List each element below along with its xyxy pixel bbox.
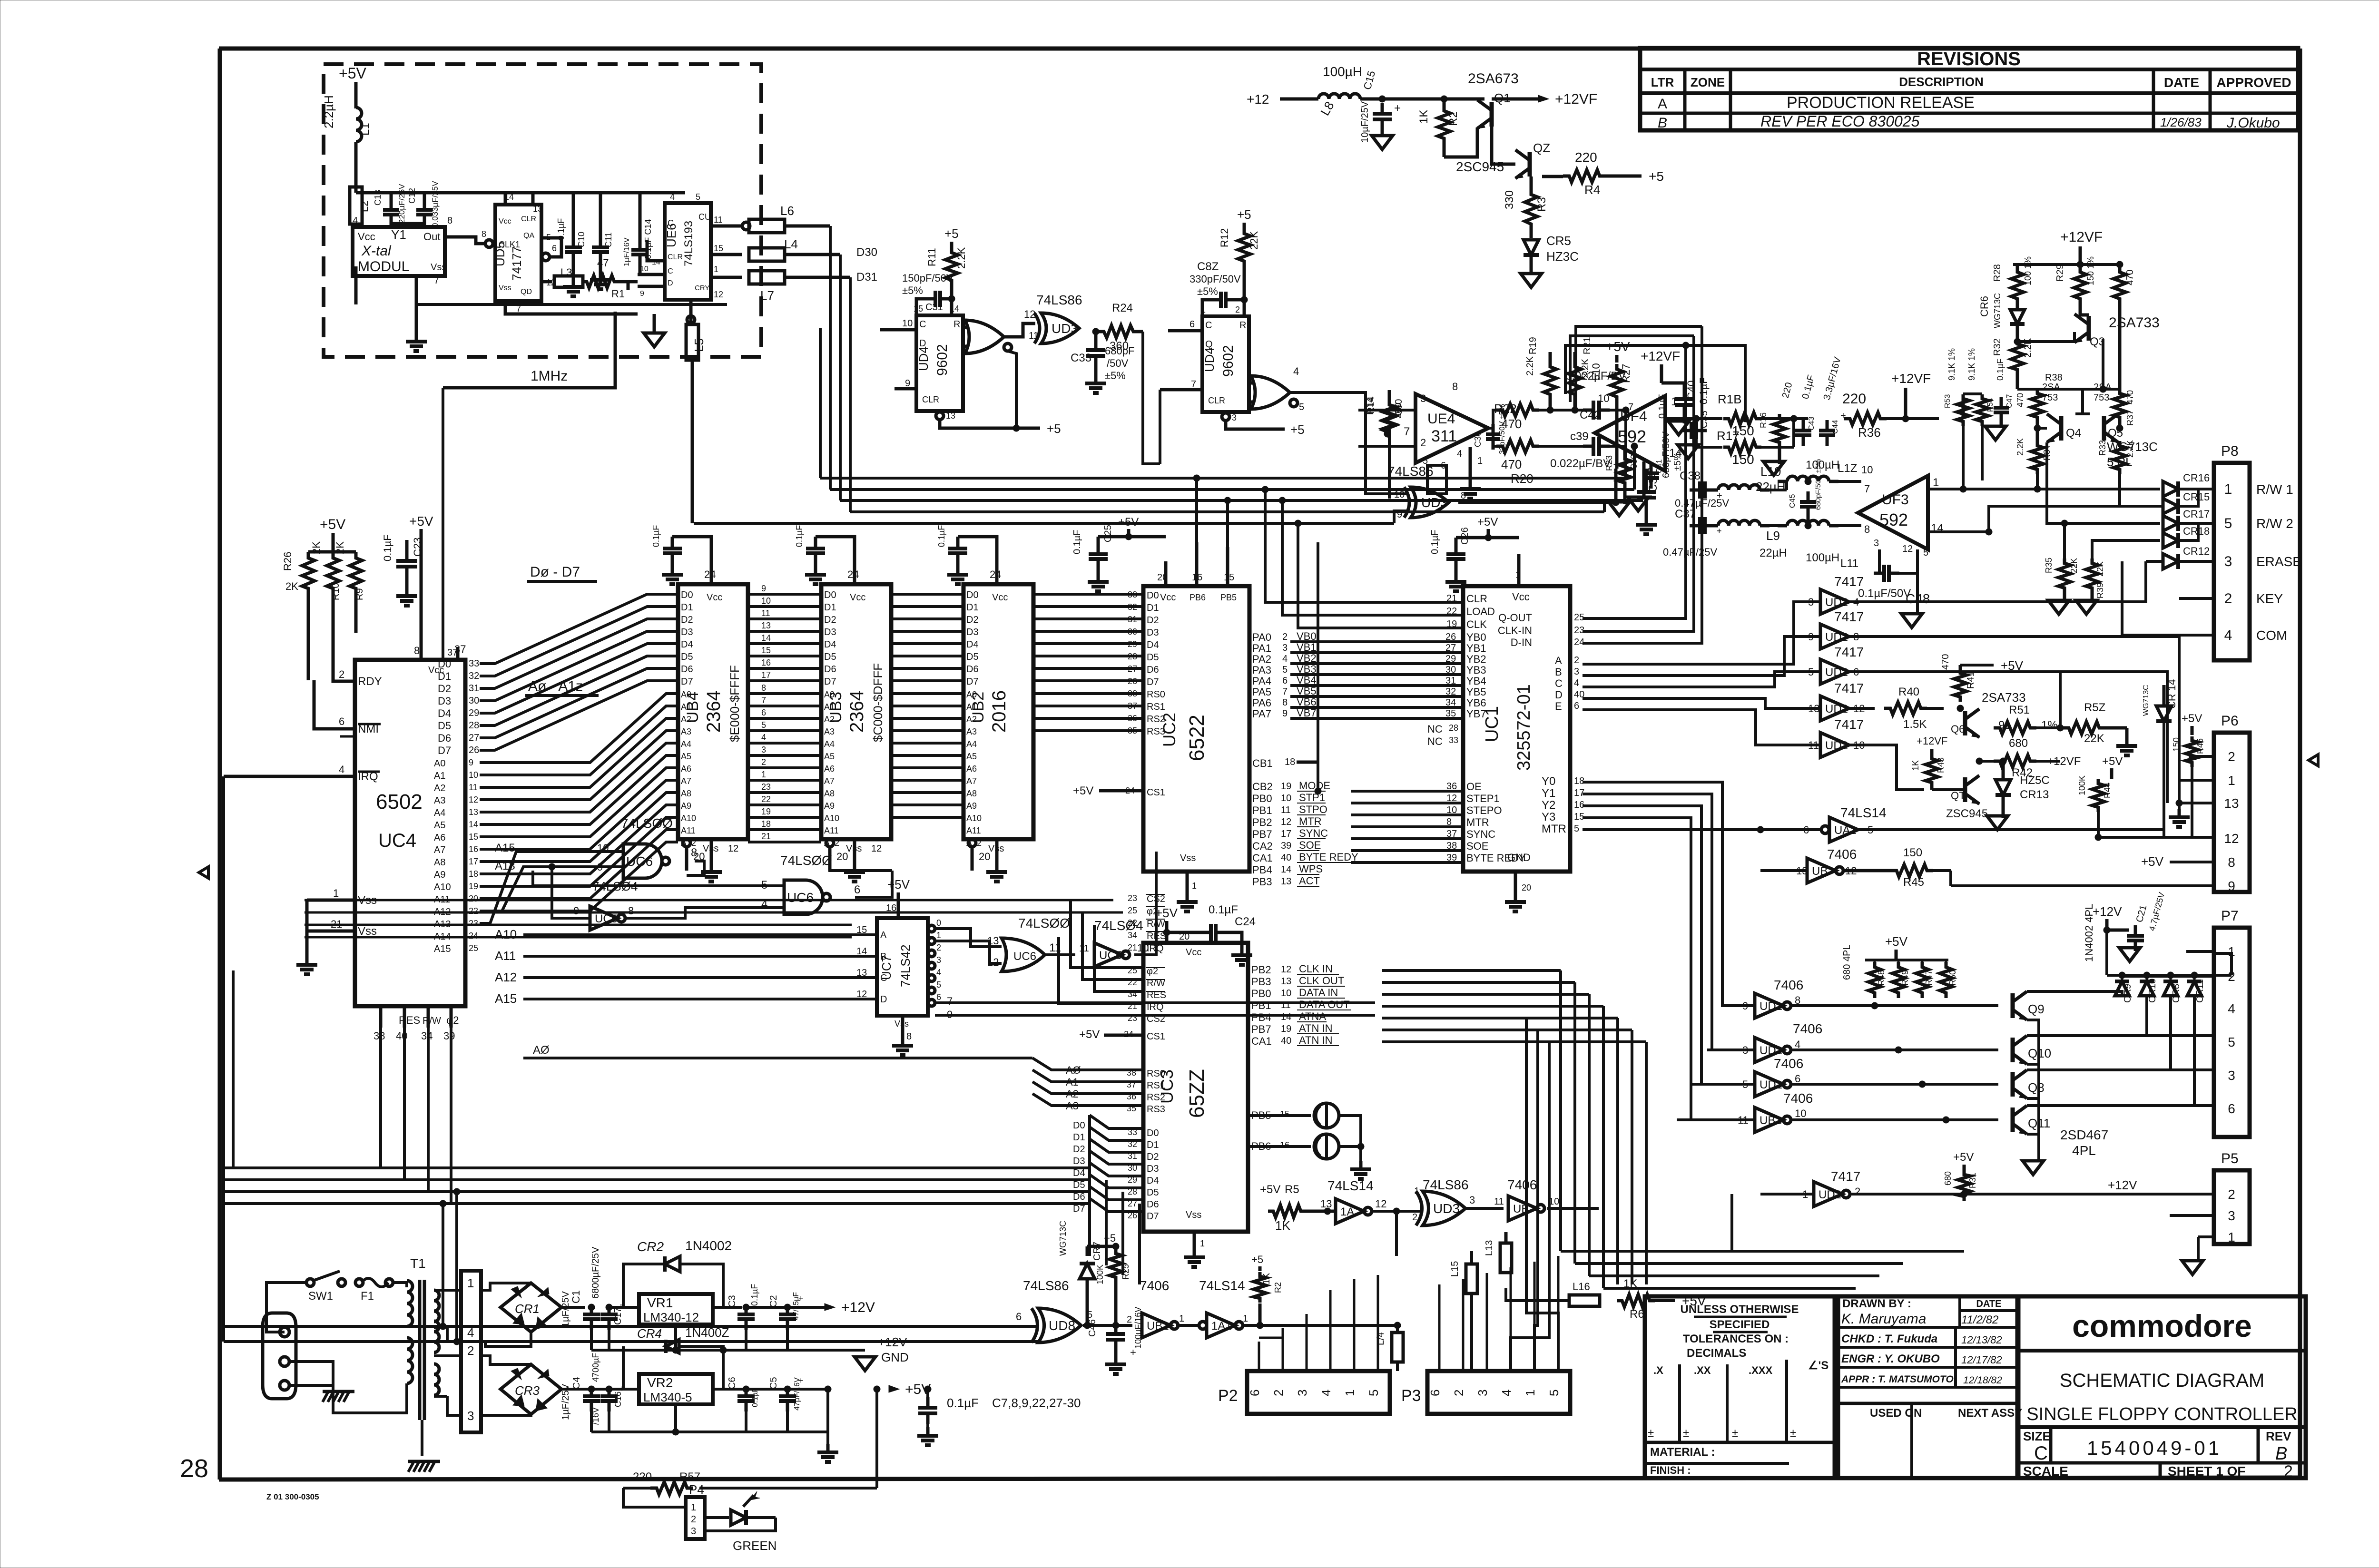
svg-text:C24: C24 (1235, 915, 1256, 928)
svg-text:RES: RES (399, 1014, 420, 1026)
svg-text:A15: A15 (495, 991, 517, 1006)
svg-text:REV PER ECO 830025: REV PER ECO 830025 (1760, 113, 1920, 130)
transistor Q9 (2011, 993, 2015, 1018)
svg-text:A4: A4 (434, 808, 445, 818)
svg-text:REV: REV (2266, 1429, 2291, 1443)
svg-text:14: 14 (1669, 447, 1682, 460)
svg-text:10: 10 (1795, 1107, 1806, 1119)
svg-text:D: D (668, 279, 673, 287)
svg-text:2.2K: 2.2K (1525, 356, 1535, 376)
svg-text:25: 25 (469, 943, 478, 953)
svg-text:PB6: PB6 (1189, 593, 1206, 602)
svg-text:A9: A9 (966, 801, 977, 811)
svg-text:D3: D3 (1073, 1156, 1085, 1166)
svg-text:4PL: 4PL (2072, 1143, 2096, 1158)
svg-text:R48: R48 (1877, 970, 1886, 986)
7417 buffer column (1808, 589, 1865, 757)
svg-text:1: 1 (1179, 1313, 1184, 1324)
svg-text:D1: D1 (1073, 1132, 1085, 1143)
svg-text:680: 680 (1943, 1171, 1953, 1186)
svg-text:±: ± (1732, 1427, 1738, 1440)
svg-text:26: 26 (469, 745, 479, 755)
wire xor2-2 input2 (1394, 511, 1407, 523)
svg-text:D31: D31 (856, 271, 877, 284)
+12V GND arrow (723, 1307, 852, 1350)
svg-text:D5: D5 (1147, 1187, 1159, 1198)
svg-text:C: C (668, 218, 674, 228)
pin names UB4 (681, 590, 696, 848)
svg-text:8: 8 (447, 216, 452, 226)
svg-text:19: 19 (469, 882, 478, 891)
svg-text:1: 1 (1243, 1313, 1248, 1324)
svg-text:3: 3 (1420, 392, 1426, 404)
capacitor C15 10uF/25V (1373, 112, 1392, 116)
svg-text:D2: D2 (1073, 1144, 1085, 1155)
svg-text:RS1: RS1 (1147, 702, 1165, 712)
svg-text:CA2: CA2 (1252, 840, 1273, 852)
svg-text:3: 3 (2228, 1208, 2235, 1223)
svg-text:D0: D0 (681, 590, 693, 600)
svg-text:NC: NC (1427, 723, 1443, 735)
svg-text:1: 1 (2228, 773, 2235, 788)
feedback loop wire top (1565, 345, 1745, 419)
svg-text:35: 35 (1128, 726, 1137, 735)
resistor R37 470 (2114, 389, 2126, 422)
svg-text:A8: A8 (434, 857, 445, 868)
svg-text:Q6: Q6 (1951, 723, 1965, 735)
svg-text:10: 10 (640, 265, 649, 273)
wire (415, 276, 418, 333)
svg-text:13: 13 (1281, 976, 1291, 987)
svg-text:74177: 74177 (510, 246, 524, 281)
svg-text:1: 1 (1200, 1239, 1205, 1248)
resistor R17 150 (1696, 419, 1722, 447)
svg-text:14: 14 (1281, 1012, 1291, 1022)
svg-text:Vss: Vss (358, 925, 377, 938)
svg-text:Vcc: Vcc (1512, 591, 1530, 603)
svg-text:74LSØØ: 74LSØØ (621, 816, 673, 831)
svg-text:0.1µF/50V: 0.1µF/50V (1858, 587, 1911, 600)
svg-text:R19: R19 (1528, 337, 1538, 354)
svg-text:R40: R40 (1898, 686, 1919, 698)
svg-text:7406: 7406 (1774, 1056, 1803, 1071)
svg-text:7406: 7406 (1827, 847, 1857, 862)
svg-text:2SA673: 2SA673 (1468, 71, 1519, 87)
svg-text:11: 11 (761, 608, 770, 618)
svg-text:4: 4 (2224, 627, 2232, 643)
svg-text:C47: C47 (2005, 394, 2014, 408)
svg-text:17: 17 (761, 670, 771, 680)
svg-text:APPR : T. MATSUMOTO: APPR : T. MATSUMOTO (1841, 1374, 1954, 1385)
svg-text:D7: D7 (438, 745, 451, 756)
svg-text:12: 12 (728, 843, 738, 854)
svg-text:±5%: ±5% (1197, 285, 1218, 297)
svg-text:A6: A6 (966, 764, 977, 774)
svg-text:4: 4 (761, 733, 766, 742)
wires into chain (1395, 1211, 1398, 1256)
svg-text:2.2K: 2.2K (2015, 438, 2025, 456)
pin numbers bus rows (761, 584, 771, 841)
svg-text:A1: A1 (434, 771, 445, 781)
svg-text:UC6: UC6 (1013, 950, 1036, 963)
svg-text:13: 13 (1320, 1198, 1332, 1210)
inductor L3 (541, 280, 552, 284)
resistor R20 470 (1496, 440, 1539, 452)
svg-text:13: 13 (761, 621, 771, 630)
svg-text:D4: D4 (966, 639, 979, 650)
revisions headers (1651, 75, 2291, 90)
svg-text:74LS86: 74LS86 (1036, 293, 1082, 307)
svg-text:CLK OUT: CLK OUT (1299, 975, 1344, 987)
svg-text:±: ± (1790, 1427, 1796, 1440)
UC3 D bus chevron (1073, 1115, 1143, 1214)
svg-text:C17: C17 (613, 1307, 623, 1325)
left vertical rails (222, 775, 225, 778)
svg-text:100µH: 100µH (1323, 64, 1362, 79)
svg-text:CA1: CA1 (1252, 852, 1273, 864)
svg-text:L9: L9 (1766, 529, 1780, 543)
svg-text:32: 32 (469, 671, 479, 681)
svg-text:13: 13 (2224, 796, 2239, 811)
svg-text:D: D (1555, 689, 1563, 701)
svg-text:4700µF: 4700µF (591, 1353, 600, 1382)
svg-text:A11: A11 (824, 826, 839, 835)
wires q4 q5 emitters (2047, 442, 2160, 523)
svg-text:1N4002 4PL: 1N4002 4PL (2083, 904, 2095, 962)
svg-text:A11: A11 (681, 826, 696, 835)
svg-text:5: 5 (696, 192, 700, 202)
svg-text:9: 9 (1282, 708, 1288, 719)
svg-text:R38: R38 (2045, 372, 2063, 383)
capacitor C39 0.022uF (1592, 437, 1595, 456)
svg-text:10: 10 (1281, 988, 1291, 999)
svg-text:6: 6 (761, 708, 766, 717)
svg-text:C25: C25 (1103, 525, 1113, 542)
svg-text:K. Maruyama: K. Maruyama (1841, 1311, 1926, 1327)
svg-text:R32: R32 (1992, 338, 2003, 356)
svg-text:C45: C45 (1789, 494, 1797, 508)
svg-text:3: 3 (1282, 643, 1288, 653)
svg-text:UB: UB (1812, 865, 1828, 878)
svg-text:4: 4 (1319, 1390, 1333, 1396)
svg-text:7417: 7417 (1834, 645, 1864, 659)
gate after UD4-2 (1251, 376, 1290, 409)
svg-text:311: 311 (1431, 427, 1457, 445)
svg-text:11: 11 (714, 215, 723, 225)
svg-text:±5%: ±5% (1105, 370, 1126, 382)
svg-text:6: 6 (1189, 319, 1195, 330)
svg-text:D7: D7 (824, 676, 836, 687)
svg-text:+5V: +5V (409, 514, 433, 529)
svg-text:USED ON: USED ON (1870, 1407, 1922, 1420)
svg-text:commodore: commodore (2072, 1308, 2252, 1343)
svg-text:FINISH :: FINISH : (1650, 1464, 1691, 1476)
svg-text:A8: A8 (824, 789, 835, 798)
capacitor C12 0.033uF/25V (416, 208, 433, 212)
svg-text:2364: 2364 (703, 690, 724, 733)
svg-text:R: R (954, 319, 960, 330)
wire A13 down (533, 871, 742, 886)
nest line B (1570, 336, 1694, 402)
svg-text:+12VF: +12VF (1641, 349, 1680, 363)
svg-text:17: 17 (469, 857, 478, 866)
control bus UC2 to UC1 (1351, 791, 1463, 862)
svg-text:22K: 22K (2069, 558, 2079, 573)
svg-text:R: R (1239, 320, 1246, 331)
svg-text:+12V: +12V (878, 1335, 907, 1349)
svg-text:D30: D30 (856, 246, 877, 259)
VR2 gnd leg (674, 1404, 677, 1432)
svg-text:470: 470 (2125, 390, 2135, 404)
UC3 left top pins (1128, 966, 1166, 1024)
P6 pin wires (2189, 755, 2214, 758)
svg-text:330pF/50V: 330pF/50V (1189, 273, 1241, 285)
svg-text:7406: 7406 (1774, 978, 1803, 992)
svg-text:22K: 22K (2095, 561, 2105, 577)
diode CR6 WG713C (2010, 310, 2025, 324)
svg-text:B: B (1658, 115, 1667, 131)
svg-text:A8: A8 (681, 789, 691, 798)
svg-text:753: 753 (2042, 392, 2058, 403)
svg-text:6: 6 (552, 244, 557, 253)
transistor Q11 (2011, 1107, 2015, 1132)
svg-text:φ2: φ2 (446, 1014, 459, 1026)
horizontal lines below UC2 (305, 900, 1123, 937)
VB labels (1294, 630, 1327, 719)
svg-text:CR7: CR7 (1092, 1242, 1102, 1261)
revisions table (1640, 48, 2298, 130)
svg-text:26: 26 (1128, 676, 1137, 686)
svg-text:0.1µF: 0.1µF (1430, 529, 1440, 554)
svg-text:YB4: YB4 (1466, 675, 1486, 687)
trunk drops to P3 (1511, 1018, 1558, 1371)
svg-text:220µF/25V: 220µF/25V (397, 184, 406, 224)
regulator VR2 LM340-5 (639, 1374, 713, 1404)
svg-text:10: 10 (1598, 392, 1609, 404)
capacitor C24 (1167, 931, 1204, 934)
svg-text:QA: QA (523, 232, 534, 240)
chassis ground plug (285, 1385, 333, 1399)
svg-text:19: 19 (1281, 781, 1291, 792)
resistor R38 470 (2031, 389, 2044, 422)
svg-text:33: 33 (1449, 735, 1458, 745)
svg-text:C42: C42 (1580, 409, 1601, 421)
svg-text:+12V: +12V (841, 1300, 875, 1315)
svg-text:A11: A11 (495, 949, 516, 963)
wire Q3 emitter down (2102, 339, 2104, 389)
svg-text:SCHEMATIC DIAGRAM: SCHEMATIC DIAGRAM (2060, 1370, 2264, 1391)
svg-text:YB6: YB6 (1466, 697, 1486, 709)
svg-text:10: 10 (469, 770, 478, 780)
svg-text:7: 7 (947, 995, 953, 1007)
mode line riser (1317, 542, 1319, 791)
ground arrow in box (644, 333, 665, 347)
svg-text:+5V: +5V (1155, 906, 1178, 920)
svg-text:+: + (1394, 102, 1401, 115)
UC1 Y pins (1542, 775, 1584, 835)
svg-text:$C000-$DFFF: $C000-$DFFF (871, 663, 885, 742)
svg-text:CLK1: CLK1 (499, 240, 520, 249)
capacitor C38 0.47uF (1698, 481, 1702, 499)
svg-text:Z 01 300-0305: Z 01 300-0305 (266, 1492, 319, 1501)
svg-text:47: 47 (597, 257, 609, 269)
wire 9602-1 CLR +5 (940, 420, 1040, 428)
svg-text:D2: D2 (824, 615, 836, 625)
svg-text:1: 1 (1523, 1390, 1537, 1396)
svg-text:+5V: +5V (2001, 658, 2024, 673)
svg-text:16: 16 (761, 658, 771, 667)
svg-text:A6: A6 (681, 764, 691, 774)
svg-text:A15: A15 (434, 944, 451, 954)
svg-text:CR8: CR8 (2171, 984, 2182, 1003)
svg-text:27: 27 (1128, 664, 1137, 674)
svg-text:9.1K 1%: 9.1K 1% (1967, 348, 1976, 381)
svg-text:GND: GND (881, 1350, 909, 1364)
svg-text:D6: D6 (1147, 1199, 1159, 1210)
svg-text:1: 1 (467, 1276, 474, 1290)
svg-text:R/W: R/W (423, 1016, 441, 1026)
svg-text:CR16: CR16 (2183, 472, 2210, 484)
svg-text:C11: C11 (604, 232, 613, 247)
UE6 left pins (647, 240, 665, 261)
misc long horizontals left (233, 970, 381, 971)
svg-text:100K: 100K (1095, 1264, 1105, 1284)
transistor Q10 (2011, 1038, 2015, 1062)
capacitor C45 (1800, 500, 1816, 504)
svg-text:2: 2 (1235, 305, 1240, 314)
capacitor C16 4700uF/16V (600, 1394, 618, 1398)
trunk UC3 to right (1382, 970, 1646, 1042)
resistor R3 330 (1525, 189, 1537, 229)
svg-text:RDY: RDY (358, 675, 382, 688)
svg-text:PA4: PA4 (1252, 675, 1271, 687)
riser joins trunk (1730, 1194, 1733, 1251)
svg-text:22µH: 22µH (1760, 547, 1787, 559)
svg-text:D4: D4 (1147, 640, 1159, 650)
svg-text:36: 36 (1128, 714, 1137, 723)
wires P2 pins up (1259, 1275, 1378, 1371)
svg-text:STP1: STP1 (1299, 792, 1325, 804)
svg-text:RS3: RS3 (1147, 1104, 1165, 1115)
svg-text:A3: A3 (681, 727, 691, 736)
wire UF4 to L9 (1696, 447, 1697, 526)
IC UD5 74177 (495, 205, 541, 301)
svg-text:UD8: UD8 (1049, 1318, 1075, 1333)
nest line C (1576, 326, 1702, 410)
capacitor C47 0.1uF (1994, 406, 2009, 410)
svg-text:13: 13 (856, 968, 867, 978)
svg-text:C46: C46 (1087, 1319, 1098, 1337)
svg-text:A0: A0 (824, 690, 835, 699)
svg-text:3: 3 (1574, 666, 1579, 677)
svg-text:37: 37 (447, 647, 458, 658)
svg-text:±5%: ±5% (902, 284, 923, 296)
svg-text:10µF/25V: 10µF/25V (1360, 101, 1370, 143)
svg-text:29: 29 (469, 708, 479, 718)
wire out of xtal to UD5 (445, 237, 485, 244)
svg-text:D2: D2 (681, 615, 693, 625)
svg-text:YB7: YB7 (1466, 708, 1486, 720)
svg-text:MATERIAL :: MATERIAL : (1650, 1446, 1715, 1459)
svg-text:0.1µF: 0.1µF (937, 525, 946, 547)
svg-text:CR9: CR9 (2123, 984, 2133, 1003)
svg-text:PB4: PB4 (1252, 864, 1272, 876)
svg-text:1%: 1% (2041, 719, 2058, 732)
svg-text:39: 39 (1281, 841, 1291, 851)
svg-text:L7: L7 (760, 288, 774, 303)
svg-text:UD3: UD3 (1052, 321, 1078, 336)
svg-text:680: 680 (2009, 737, 2028, 750)
diode CR7 WG713C (1080, 1264, 1095, 1279)
svg-text:Vcc: Vcc (1186, 947, 1201, 958)
svg-text:C44: C44 (1831, 420, 1839, 434)
svg-text:Vcc: Vcc (1160, 592, 1176, 603)
svg-text:PB1: PB1 (1252, 804, 1272, 816)
svg-text:10: 10 (902, 318, 913, 329)
capacitor C4 (583, 1394, 600, 1398)
svg-text:Q9: Q9 (2028, 1002, 2045, 1016)
gnd left (354, 266, 358, 304)
svg-text:C: C (2034, 1443, 2048, 1464)
svg-text:ATNA: ATNA (1299, 1010, 1326, 1022)
svg-text:A10: A10 (495, 927, 517, 941)
svg-text:PB2: PB2 (1252, 816, 1272, 828)
svg-text:12: 12 (1281, 817, 1291, 827)
svg-text:LM340-12: LM340-12 (643, 1310, 699, 1324)
svg-text:1: 1 (2228, 1230, 2235, 1245)
address bus 6502 to UB4 (480, 694, 678, 911)
svg-text:UC5: UC5 (1099, 949, 1122, 962)
resistors R48 R49 R47 R50 (1868, 960, 1957, 998)
svg-text:1N4002: 1N4002 (685, 1238, 732, 1253)
svg-text:5: 5 (1647, 466, 1653, 478)
wire Q1 base (1443, 144, 1446, 157)
svg-text:A0: A0 (434, 758, 445, 769)
svg-text:3: 3 (761, 745, 766, 755)
svg-text:7417: 7417 (1834, 609, 1864, 624)
connector strip T1 (461, 1271, 481, 1432)
svg-text:UC4: UC4 (378, 830, 416, 851)
inductor L7 (711, 276, 742, 279)
CS pin UB2 (968, 839, 976, 847)
svg-text:C16: C16 (613, 1392, 623, 1407)
svg-text:A12: A12 (495, 970, 517, 984)
svg-text:14: 14 (856, 946, 867, 957)
svg-text:P7: P7 (2221, 908, 2239, 924)
svg-text:+5V: +5V (1885, 934, 1908, 949)
bridge CR1 diode marks (511, 1286, 549, 1329)
svg-text:$E000-$FFFF: $E000-$FFFF (727, 665, 742, 742)
svg-text:6: 6 (1016, 1311, 1022, 1323)
UC2 left pin names (1128, 590, 1165, 737)
trunk right risers to nest (1624, 410, 1627, 478)
svg-text:CR2: CR2 (637, 1239, 664, 1254)
UC3 D pins (1128, 1127, 1159, 1222)
+12VF arrow (1538, 95, 1549, 102)
svg-text:L16: L16 (1573, 1281, 1590, 1293)
svg-text:Y1: Y1 (1542, 787, 1555, 800)
svg-text:1: 1 (1343, 1390, 1357, 1396)
svg-text:20: 20 (836, 851, 848, 862)
svg-text:±: ± (1648, 1427, 1654, 1440)
capacitor C11 (592, 245, 609, 249)
svg-text:OE: OE (1466, 781, 1482, 793)
bypass cap UB2 (948, 547, 967, 550)
svg-text:DESCRIPTION: DESCRIPTION (1899, 75, 1984, 89)
svg-text:7: 7 (761, 696, 766, 705)
svg-text:NC: NC (1427, 735, 1443, 747)
svg-text:MTR: MTR (1542, 823, 1566, 835)
